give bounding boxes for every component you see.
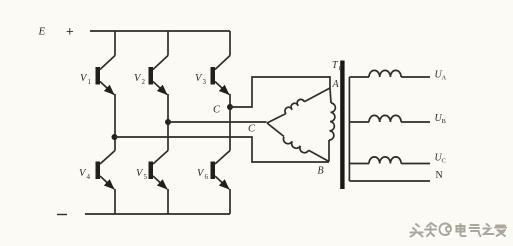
svg-text:3: 3 [203, 78, 207, 86]
svg-text:C: C [442, 158, 446, 165]
wire leg phase A top (V1 collector drop) [114, 31, 116, 56]
transistor V6 [197, 151, 230, 190]
wire top DC bus [90, 30, 230, 32]
node UB output label [435, 113, 447, 125]
transistor V2 [134, 56, 168, 96]
wire leg phase A middle (V1 emitter to V4 collector) [114, 94, 116, 151]
transformer T primary delta winding A-B (labels A, B) [318, 79, 340, 177]
svg-text:C: C [213, 105, 221, 116]
wire leg phase C bottom [229, 189, 231, 214]
svg-text:4: 4 [87, 173, 91, 181]
node UC output label [435, 153, 446, 165]
transformer T primary delta winding C-B [267, 123, 329, 162]
watermark 头条@电气之家 [411, 223, 509, 239]
svg-text:B: B [318, 166, 324, 177]
wire neutral output N [349, 180, 430, 182]
transformer T core (label Tr) [332, 60, 345, 189]
plus terminal [66, 24, 74, 39]
wire phase-C node to delta corner A [230, 77, 330, 107]
svg-text:N: N [436, 170, 443, 181]
svg-text:C: C [248, 124, 256, 135]
transistor V3 [195, 56, 230, 96]
transformer T primary delta winding C-A (with label C) [248, 88, 330, 135]
inductor secondary winding phase B [349, 115, 430, 122]
svg-text:5: 5 [144, 173, 148, 181]
wire leg phase B top [167, 31, 169, 56]
wire phase-B node to delta vertex C [168, 121, 267, 123]
svg-text:A: A [332, 79, 340, 90]
minus terminal [57, 214, 67, 216]
node E (supply label) [38, 26, 46, 38]
node phase-A output (junction dot on leg 1) [112, 134, 118, 140]
transistor V5 [136, 151, 168, 190]
node phase-C output (junction dot on leg 3, label C) [213, 104, 233, 116]
wire leg phase C middle [229, 94, 231, 151]
transistor V1 [80, 56, 115, 96]
svg-text:B: B [442, 118, 447, 125]
svg-text:6: 6 [205, 173, 209, 181]
node UA output label [435, 70, 447, 82]
wire bottom DC bus [85, 213, 230, 215]
wire phase-A node to delta corner B [115, 137, 330, 162]
inductor secondary winding phase C [349, 157, 430, 164]
svg-text:2: 2 [142, 78, 146, 86]
svg-text:E: E [38, 26, 46, 38]
svg-text:1: 1 [88, 78, 92, 86]
node phase-B output (junction dot on leg 2) [165, 119, 171, 125]
wire leg phase B middle [167, 94, 169, 151]
node N label [436, 170, 443, 181]
inductor secondary winding phase A [349, 70, 430, 77]
transistor V4 [79, 151, 115, 190]
wire leg phase A bottom (V4 emitter to bus) [114, 189, 116, 214]
wire leg phase B bottom [167, 189, 169, 214]
svg-text:A: A [442, 75, 447, 82]
wire secondary neutral rail [348, 77, 350, 181]
svg-text:+: + [66, 24, 74, 39]
wire leg phase C top [229, 31, 231, 56]
